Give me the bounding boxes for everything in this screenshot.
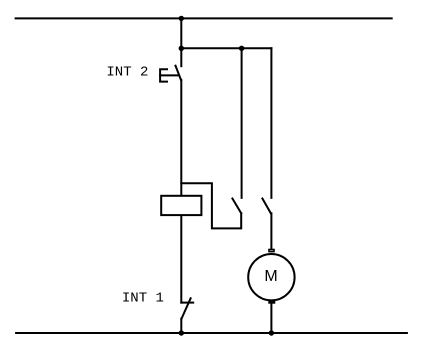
- svg-text:M: M: [264, 268, 277, 285]
- svg-text:INT 1: INT 1: [122, 291, 164, 307]
- svg-text:INT 2: INT 2: [106, 65, 148, 81]
